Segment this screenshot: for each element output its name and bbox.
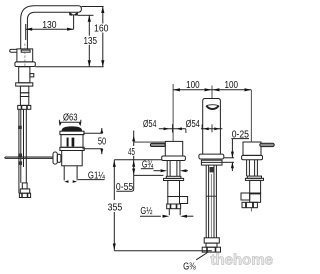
left tab lever — [10, 49, 17, 52]
rod crossing clamp upper — [18, 154, 22, 158]
svg-text:G1¼: G1¼ — [88, 170, 106, 181]
body slot detail — [21, 50, 30, 52]
hex nut — [18, 105, 31, 109]
right handle locknut — [247, 176, 261, 178]
right valve bottom nut — [242, 202, 257, 207]
dimension 0-25 — [231, 139, 249, 171]
drain flange — [60, 147, 84, 150]
drain slotted body — [61, 135, 83, 148]
dimension G1 1/4 arrows — [64, 180, 68, 183]
dimension 130 — [26, 15, 74, 40]
left tailpiece — [169, 209, 180, 216]
dimension 355 — [113, 160, 212, 251]
svg-text:50: 50 — [98, 136, 107, 147]
svg-text:G⅜: G⅜ — [183, 261, 196, 272]
dimension 160 — [81, 7, 104, 67]
drain plug brim — [60, 131, 84, 134]
dimension 50 — [82, 128, 103, 154]
front spout body — [203, 99, 221, 155]
svg-text:355: 355 — [108, 202, 123, 213]
svg-text:45: 45 — [128, 147, 135, 158]
front spout aerator lens — [206, 104, 218, 107]
drain pop-up waste: dimension Ø63 — [59, 120, 81, 127]
drain tailpipe — [64, 166, 77, 181]
front spout tube — [206, 165, 216, 238]
tube detail block — [210, 167, 215, 172]
spout side view outline — [21, 6, 82, 49]
dimension G3/8 — [196, 253, 207, 260]
deck line front view left — [114, 159, 161, 161]
pop-up rod horizontal — [5, 157, 53, 158]
left handle body — [165, 141, 182, 156]
svg-text:0-25: 0-25 — [232, 129, 250, 140]
svg-text:Ø54: Ø54 — [186, 119, 201, 130]
left valve body — [168, 180, 180, 196]
rod crossing clamp lower — [18, 161, 22, 165]
deck extension lines 0-25 — [224, 157, 234, 159]
dimension Ø54 (left handle) — [159, 124, 186, 133]
base flange on deck — [15, 62, 35, 67]
svg-text:0-55: 0-55 — [116, 182, 134, 193]
right handle body — [243, 142, 261, 155]
centerline side body — [24, 44, 26, 67]
dimension G1/2 — [140, 215, 193, 218]
dimension 45 vertical line — [116, 131, 163, 192]
svg-text:thehome: thehome — [211, 252, 274, 269]
svg-text:G½: G½ — [140, 206, 152, 217]
left valve bottom nut — [167, 204, 181, 209]
svg-text:130: 130 — [42, 20, 57, 31]
spout column bottom blocks — [204, 238, 219, 243]
svg-text:Ø54: Ø54 — [143, 119, 157, 130]
front spout escutcheon — [199, 154, 224, 159]
locknut — [16, 83, 33, 86]
deck line side view — [35, 66, 103, 68]
dimension 135 — [78, 15, 94, 67]
right handle lever — [260, 143, 274, 146]
right valve body — [250, 180, 261, 194]
left handle shank — [167, 161, 180, 177]
tube centerline and joint tick — [210, 174, 212, 238]
faucet body side view — [17, 49, 33, 62]
drain body below deck — [62, 151, 82, 166]
left handle escutcheon — [162, 156, 186, 161]
left handle lever — [150, 143, 165, 146]
drain plug cap — [62, 126, 83, 131]
clamp on rod — [18, 126, 22, 129]
right CL stub — [250, 208, 252, 212]
shank below deck — [19, 67, 30, 83]
svg-text:100: 100 — [225, 80, 239, 91]
front spout flange — [201, 160, 222, 165]
svg-text:160: 160 — [94, 24, 109, 35]
front view top dimension line 100/100 — [173, 84, 251, 142]
aerator on spout end — [70, 12, 78, 15]
bottom end piece of tubes — [22, 183, 27, 189]
right valve side port left — [241, 193, 250, 200]
drain pivot capsule — [53, 152, 57, 164]
right handle escutcheon — [242, 155, 263, 159]
dimension G3/4 — [154, 169, 189, 172]
body sections below — [20, 86, 28, 93]
svg-text:100: 100 — [186, 80, 200, 91]
left handle locknut — [166, 176, 181, 178]
svg-text:135: 135 — [84, 36, 98, 47]
svg-text:Ø63: Ø63 — [63, 113, 78, 124]
left valve side port — [180, 197, 188, 204]
supply tubes / lift rod — [18, 109, 20, 193]
shank nub right — [30, 74, 34, 77]
dimension Ø54 (spout) — [201, 124, 222, 132]
right handle shank — [247, 160, 258, 176]
